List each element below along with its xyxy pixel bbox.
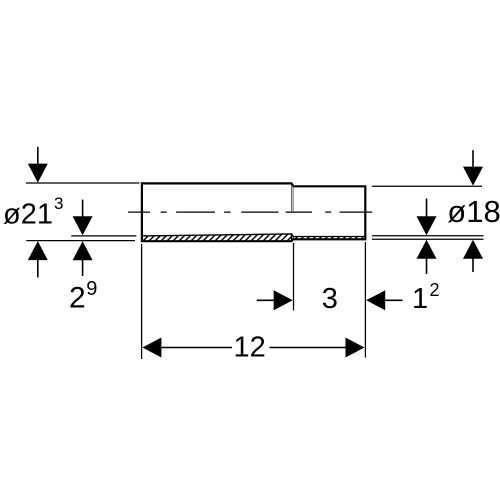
svg-text:ø18: ø18 bbox=[447, 194, 500, 229]
svg-text:ø21: ø21 bbox=[3, 199, 53, 231]
svg-text:9: 9 bbox=[86, 278, 97, 300]
svg-text:2: 2 bbox=[69, 281, 86, 314]
svg-text:1: 1 bbox=[412, 283, 428, 315]
svg-text:2: 2 bbox=[430, 280, 440, 300]
svg-text:3: 3 bbox=[54, 194, 63, 213]
svg-text:12: 12 bbox=[234, 331, 266, 363]
svg-text:3: 3 bbox=[322, 283, 338, 315]
